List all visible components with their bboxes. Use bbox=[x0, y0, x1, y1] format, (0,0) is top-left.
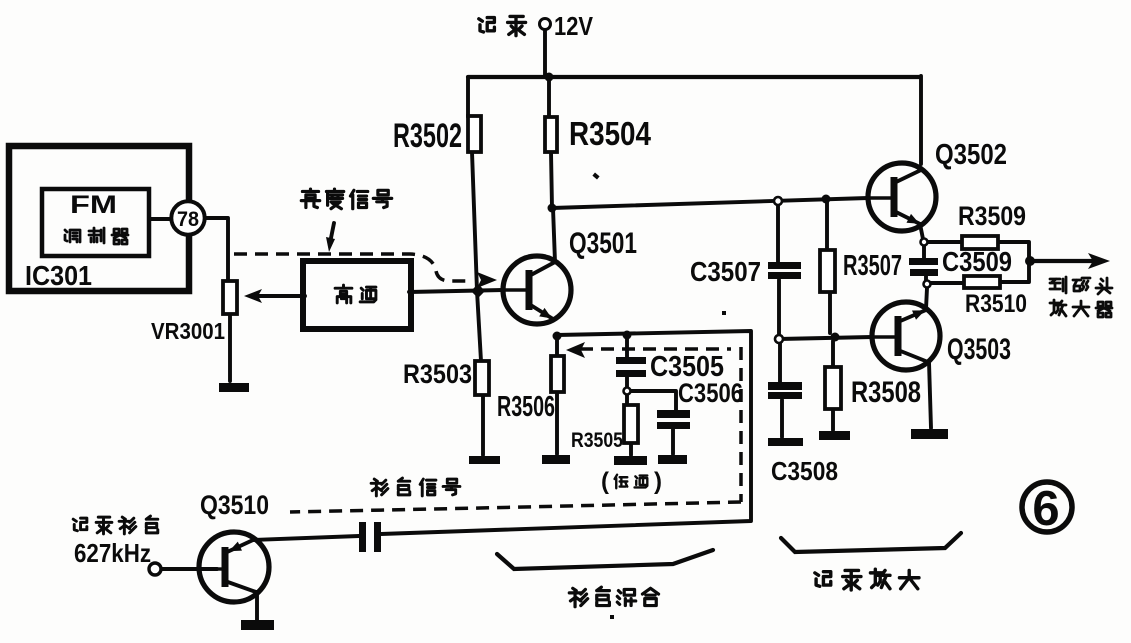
svg-text:Q3510: Q3510 bbox=[200, 490, 269, 520]
svg-text:Q3503: Q3503 bbox=[947, 333, 1011, 366]
svg-text:VR3001: VR3001 bbox=[151, 318, 225, 344]
svg-text:627kHz: 627kHz bbox=[74, 538, 151, 568]
svg-text:(: ( bbox=[601, 468, 609, 495]
svg-text:R3502: R3502 bbox=[393, 117, 462, 155]
svg-text:C3507: C3507 bbox=[690, 256, 761, 287]
svg-text:R3503: R3503 bbox=[403, 359, 472, 389]
svg-text:12V: 12V bbox=[554, 11, 594, 41]
svg-text:R3509: R3509 bbox=[958, 201, 1026, 231]
svg-text:Q3502: Q3502 bbox=[935, 139, 1007, 171]
svg-text:): ) bbox=[654, 468, 662, 495]
svg-text:R3507: R3507 bbox=[843, 250, 902, 282]
svg-text:C3506: C3506 bbox=[678, 378, 743, 408]
svg-text:R3506: R3506 bbox=[497, 391, 555, 423]
svg-text:R3510: R3510 bbox=[965, 290, 1027, 318]
svg-text:R3505: R3505 bbox=[571, 429, 623, 452]
svg-text:R3508: R3508 bbox=[851, 376, 921, 409]
svg-text:Q3501: Q3501 bbox=[569, 227, 637, 260]
svg-text:78: 78 bbox=[177, 208, 199, 231]
svg-text:C3508: C3508 bbox=[771, 456, 838, 486]
svg-text:C3509: C3509 bbox=[942, 246, 1012, 277]
svg-text:R3504: R3504 bbox=[569, 115, 652, 152]
svg-text:FM: FM bbox=[70, 191, 117, 219]
svg-text:6: 6 bbox=[1032, 482, 1059, 536]
svg-text:IC301: IC301 bbox=[25, 260, 92, 291]
